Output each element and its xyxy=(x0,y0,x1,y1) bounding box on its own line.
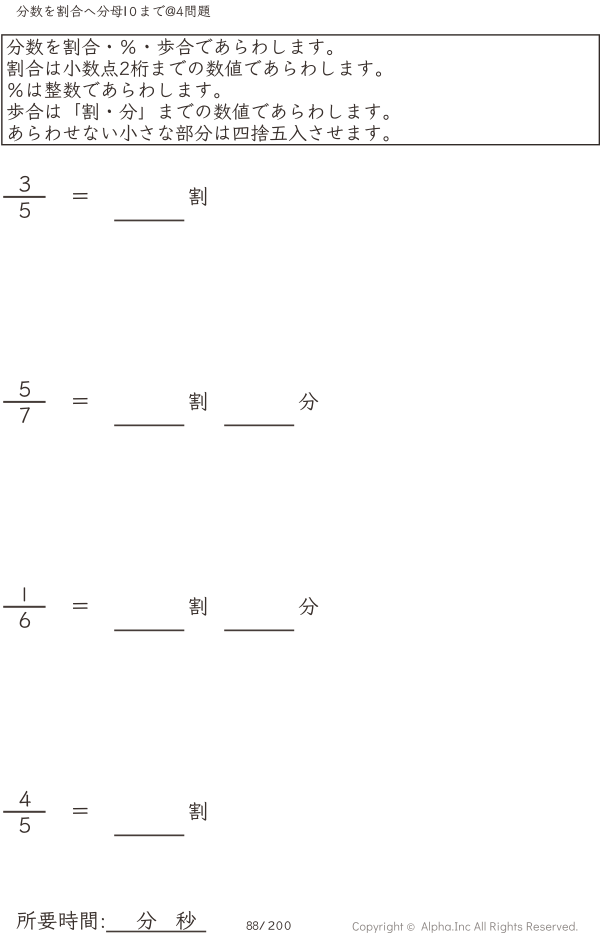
answer blank 1 xyxy=(114,425,184,427)
answer blank 2 xyxy=(224,630,294,632)
problem 2 fraction denominator 7 xyxy=(20,407,30,423)
problem 2 fraction numerator 5 xyxy=(20,381,30,397)
footer blank line xyxy=(106,931,206,933)
problem 4 fraction bar xyxy=(3,811,45,813)
problem 1 fraction numerator 3 xyxy=(20,176,30,192)
footer 所要時間: xyxy=(17,911,104,930)
instruction text xyxy=(7,38,389,142)
unit 分 xyxy=(299,392,318,410)
equals sign xyxy=(73,398,88,404)
problem 3 fraction bar xyxy=(3,606,45,608)
problem 3 fraction numerator 1 xyxy=(24,587,25,601)
copyright xyxy=(353,922,578,933)
equals sign xyxy=(73,193,88,199)
problem 1 fraction bar xyxy=(3,196,45,198)
problem 3 fraction denominator 6 xyxy=(20,612,30,628)
problem 4 fraction numerator 4 xyxy=(19,791,30,807)
problem 1 fraction denominator 5 xyxy=(20,202,30,218)
answer blank 1 xyxy=(114,630,184,632)
unit 割 xyxy=(189,802,206,821)
equals sign xyxy=(73,603,88,609)
title xyxy=(16,5,210,17)
unit 割 xyxy=(189,187,206,206)
footer 分 xyxy=(137,911,157,929)
answer blank 2 xyxy=(224,425,294,427)
unit 分 xyxy=(299,597,318,615)
page number 88/200 xyxy=(247,921,291,930)
unit 割 xyxy=(189,392,206,411)
answer blank 1 xyxy=(114,835,184,837)
answer blank 1 xyxy=(114,220,184,222)
problem 4 fraction denominator 5 xyxy=(20,817,30,833)
problem 2 fraction bar xyxy=(3,401,45,403)
unit 割 xyxy=(189,597,206,616)
equals sign xyxy=(73,808,88,814)
footer 秒 xyxy=(176,911,196,930)
instruction box border xyxy=(2,35,600,145)
